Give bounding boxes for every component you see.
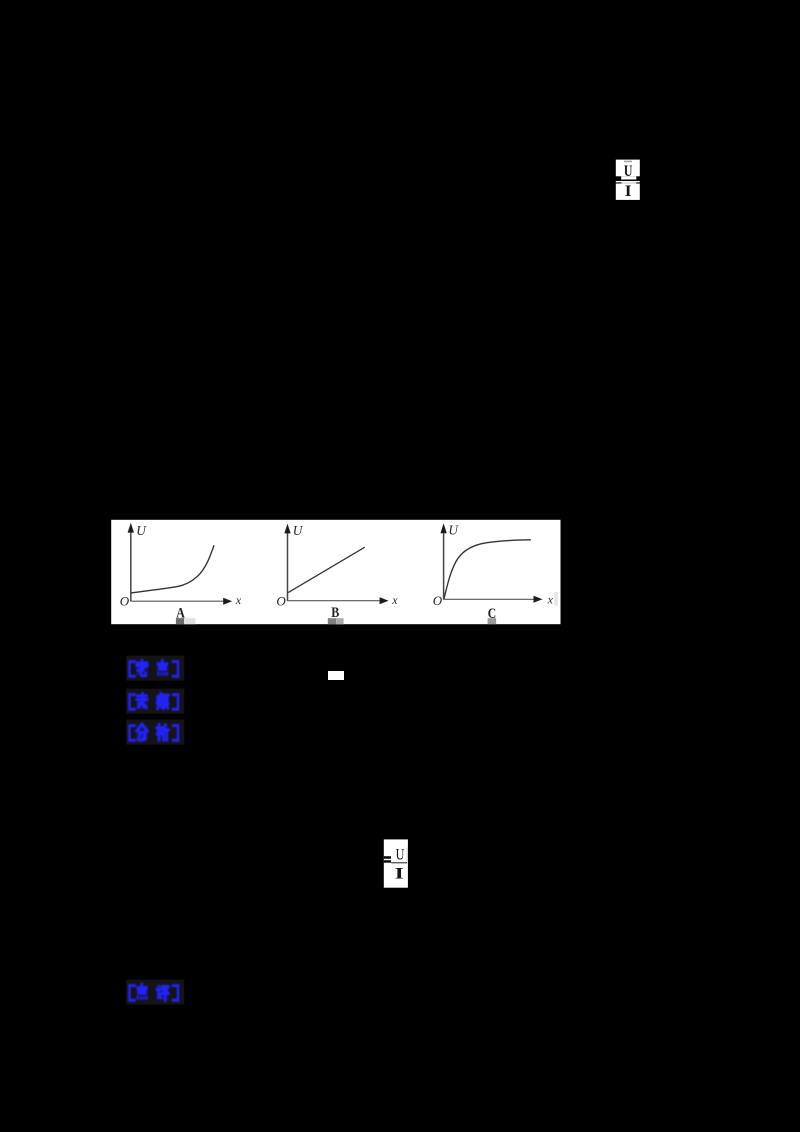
svg-text:x: x [391,593,398,607]
graphs image: white strip with three graphs [111,519,561,625]
graph A: curve [131,545,214,593]
denominator white box [616,184,640,200]
blue tag 3: 【分析】 [124,718,188,750]
equation image: fraction U/I (top right) [610,155,646,205]
svg-text:O: O [120,594,130,609]
white box [384,839,408,887]
fraction bar [621,180,636,182]
white highlighted blank on kaodian line [328,671,344,680]
gray strip at top [624,161,632,163]
svg-text:U: U [293,523,304,538]
graph C: gray highlight square [488,618,497,624]
middle white between stubs [621,182,636,184]
svg-text:O: O [276,594,286,609]
graph C: light strip right of x [554,592,558,606]
svg-text:I: I [625,183,632,200]
svg-text:x: x [547,593,554,607]
gray side stubs [616,182,622,184]
svg-text:U: U [136,523,147,538]
svg-text:U: U [396,846,405,863]
white background of image [111,520,560,624]
equals sign [384,856,391,859]
svg-text:U: U [448,523,459,538]
numerator white box [616,160,640,177]
graph A: y-axis [130,526,132,601]
svg-text:O: O [433,593,443,608]
graph B: x-axis [288,600,382,602]
graph A: gray highlight squares [176,618,184,624]
svg-text:x: x [235,593,242,607]
blue tag 1: 【考点】 [124,654,188,686]
fraction bar [391,862,407,863]
graph C: x-axis [444,598,536,600]
blue tag 4: 【点评】 [124,978,188,1010]
graph C: saturating curve [444,540,531,599]
graph B: gray highlight squares [328,618,336,624]
middle white column [621,176,636,181]
blue tag 2: 【专题】 [124,687,188,719]
svg-text:I: I [395,865,404,882]
graph A: x-axis [131,600,225,602]
graph B: straight line [288,547,365,592]
equation image: = U/I (middle) [378,834,414,894]
graph C: y-axis [443,527,445,600]
white strip under bar [616,181,640,182]
graph B: y-axis [287,527,289,601]
faint strip at right [407,848,408,862]
